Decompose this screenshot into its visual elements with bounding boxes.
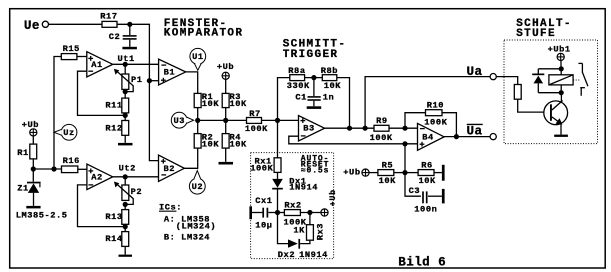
- svg-text:Uz: Uz: [63, 128, 75, 138]
- op-amp A1: [87, 52, 113, 77]
- resistor Rx2: [278, 200, 307, 227]
- wire A2 feedback to R13/R14 node: [78, 185, 126, 227]
- svg-text:100n: 100n: [414, 204, 437, 214]
- node junction R15 line: [51, 166, 56, 171]
- power +Ub (Rx2, vertical label): [321, 189, 338, 216]
- wire +Ub1 to relay top node: [560, 61, 562, 69]
- svg-text:LM385-2.5: LM385-2.5: [16, 211, 68, 221]
- svg-text:Ut2: Ut2: [119, 164, 136, 174]
- wire relay bottom node: [538, 92, 561, 94]
- capacitor C1: [295, 78, 334, 103]
- ground (C1): [307, 101, 322, 109]
- svg-text:+Ub: +Ub: [22, 120, 39, 130]
- ground (R12): [118, 135, 133, 145]
- title SCHALT-STUFE: [516, 18, 572, 40]
- svg-text:R17: R17: [100, 12, 117, 22]
- svg-text:R15: R15: [63, 44, 80, 54]
- wire R5 to node: [394, 172, 405, 174]
- resistor R16: [62, 156, 80, 173]
- resistor R7: [245, 109, 268, 134]
- node Rx2/Rx3: [300, 210, 321, 215]
- node below R11: [123, 113, 128, 118]
- wire Dx1 to Cx1 node: [277, 189, 279, 212]
- resistor R14: [105, 227, 128, 247]
- diode Dx2: [278, 213, 328, 261]
- svg-text:100K: 100K: [370, 133, 393, 143]
- wire Ue to R17: [49, 23, 103, 25]
- resistor R1 10K: [194, 92, 219, 109]
- ground (R6, side bar): [434, 165, 445, 181]
- wire comparator output bus to B3: [198, 119, 247, 121]
- svg-text:STUFE: STUFE: [516, 28, 556, 40]
- svg-text:B3: B3: [303, 124, 315, 134]
- wire B1 output to R1: [186, 72, 198, 94]
- svg-text:Ua: Ua: [467, 125, 483, 139]
- resistor R3 10K: [222, 79, 247, 109]
- svg-text:330K: 330K: [287, 81, 310, 91]
- svg-text:10K: 10K: [202, 139, 220, 149]
- wire A2 output Ut2 to B2 - input: [113, 176, 159, 178]
- wire Ua riser and output line: [365, 77, 490, 129]
- node bus/R1/R2: [195, 118, 200, 123]
- svg-text:KOMPARATOR: KOMPARATOR: [164, 28, 244, 40]
- node below P2: [123, 202, 128, 207]
- resistor R15: [61, 44, 80, 60]
- ground (R4): [219, 148, 234, 164]
- svg-text:100K: 100K: [250, 164, 273, 174]
- label AUTO-RESET 0.5s: [301, 154, 330, 175]
- svg-text:U2: U2: [192, 182, 204, 192]
- label ICs list: [159, 203, 216, 243]
- svg-text:Ut1: Ut1: [118, 54, 135, 64]
- resistor R12: [105, 115, 128, 135]
- svg-text:Rx3: Rx3: [315, 223, 325, 240]
- svg-text:Z1: Z1: [17, 184, 29, 194]
- wire R8b to B3 output: [337, 78, 350, 129]
- op-amp A2: [87, 164, 113, 190]
- svg-text:Dx2: Dx2: [278, 250, 295, 260]
- svg-text:(LM324): (LM324): [176, 222, 216, 232]
- ground (R14): [119, 246, 133, 256]
- title SCHMITT-TRIGGER: [283, 39, 347, 62]
- resistor R8a: [287, 66, 310, 91]
- svg-text:C1: C1: [295, 93, 307, 103]
- svg-text:P2: P2: [131, 187, 143, 197]
- node relay top: [538, 66, 564, 71]
- node junction Ue line / B1 + input: [147, 78, 159, 83]
- svg-text:10µ: 10µ: [255, 220, 272, 230]
- svg-text:10K: 10K: [379, 176, 397, 186]
- wire relay contact link (dotted): [573, 79, 581, 81]
- svg-text:B4: B4: [422, 132, 434, 142]
- svg-text:10K: 10K: [419, 176, 437, 186]
- svg-text:10K: 10K: [230, 99, 248, 109]
- node Ue input terminal: [24, 19, 49, 33]
- wire R15 to A1 + input: [77, 56, 87, 58]
- svg-text:Rx2: Rx2: [284, 200, 301, 210]
- svg-text:+Ub: +Ub: [329, 189, 338, 206]
- svg-text:R1: R1: [17, 148, 29, 158]
- wire Uz reference line to R15: [54, 57, 61, 170]
- svg-text:R16: R16: [63, 156, 80, 166]
- node R8a/R8b/C1: [311, 75, 316, 80]
- ground (C2): [122, 40, 136, 50]
- svg-text:C2: C2: [109, 32, 121, 42]
- svg-text:≈0.5s: ≈0.5s: [301, 166, 330, 175]
- wire R10 right leg to B4 output: [442, 113, 456, 137]
- wire R10 left leg: [405, 113, 426, 129]
- wire R16 to A2 + input: [78, 168, 87, 170]
- resistor R6: [405, 160, 436, 186]
- svg-text:R7: R7: [249, 109, 261, 119]
- svg-text:1K: 1K: [293, 226, 305, 236]
- svg-text:1n: 1n: [323, 93, 335, 103]
- wire B4+ node to R5/R6: [404, 144, 406, 173]
- svg-text:100K: 100K: [424, 117, 447, 127]
- comparator B2: [159, 155, 185, 181]
- svg-text:1N914: 1N914: [289, 183, 318, 193]
- svg-text:+Ub: +Ub: [343, 167, 360, 177]
- resistor (base, unlabeled): [514, 85, 521, 100]
- power +Ub (above R3): [217, 62, 234, 79]
- resistor R2 10K: [194, 120, 219, 149]
- node Uz bubble: [54, 124, 77, 140]
- wire R8a to R8b: [305, 77, 323, 79]
- wire R2 to B2 output: [184, 148, 197, 168]
- svg-text:10K: 10K: [230, 139, 248, 149]
- node B3out/R8b: [347, 126, 352, 131]
- resistor R10: [424, 100, 447, 127]
- svg-text:Cx1: Cx1: [255, 196, 272, 206]
- svg-text:U3: U3: [174, 116, 186, 126]
- wire Ua terminal into base resistor: [496, 77, 517, 85]
- svg-text:R9: R9: [376, 116, 388, 126]
- resistor R5: [369, 160, 396, 186]
- svg-text:B1: B1: [164, 68, 176, 78]
- capacitor C2: [109, 24, 137, 42]
- title FENSTER-KOMPARATOR: [164, 18, 244, 40]
- svg-text:R14: R14: [105, 234, 122, 244]
- wire hysteresis left leg: [278, 78, 290, 121]
- node R9/R10/B4: [402, 126, 407, 131]
- node junction R1/Z1: [31, 166, 36, 171]
- resistor Rx1: [250, 120, 281, 173]
- op-amp B3: [299, 116, 325, 142]
- relay coil K1: [549, 69, 573, 93]
- diode Dx1: [272, 172, 318, 192]
- node U1 bubble: [190, 48, 206, 70]
- ground (emitter): [554, 135, 568, 137]
- svg-text:B: LM324: B: LM324: [164, 232, 210, 242]
- svg-text:+Ub: +Ub: [217, 62, 234, 72]
- wire R3 to bus: [225, 108, 227, 121]
- power +Ub (left): [22, 120, 39, 136]
- power +Ub (R5): [343, 167, 369, 177]
- auto-reset dotted box: [251, 153, 334, 259]
- ground (Z1): [26, 206, 40, 209]
- relay switch contact: [578, 63, 588, 95]
- resistor Rx3: [293, 213, 325, 241]
- resistor R9: [370, 116, 393, 143]
- wire R1 to reference bus: [32, 159, 34, 169]
- wire emitter to ground: [560, 124, 562, 135]
- node Ut1: [118, 54, 135, 67]
- schalt-stufe dotted box: [504, 40, 598, 144]
- node junction R17/C2: [127, 22, 132, 27]
- svg-text:R8a: R8a: [288, 66, 305, 76]
- potentiometer P1: [114, 64, 143, 91]
- capacitor Cx1: [255, 196, 277, 230]
- op-amp B4: [418, 123, 445, 150]
- node R5/R6/C3: [402, 170, 407, 175]
- node B3-/B4+/R5 junction: [402, 141, 407, 146]
- resistor R17: [100, 12, 117, 28]
- resistor R4 10K: [222, 120, 247, 149]
- svg-text:10K: 10K: [324, 81, 342, 91]
- node relay bottom / collector: [559, 90, 564, 95]
- svg-text:R8b: R8b: [321, 66, 338, 76]
- ground (C3, side bar): [428, 189, 445, 204]
- svg-text:R6: R6: [421, 160, 433, 170]
- wire B3 - input feedback leg: [289, 136, 418, 144]
- potentiometer P2: [114, 177, 142, 205]
- svg-text:R5: R5: [382, 160, 394, 170]
- wire R1 to bus: [197, 108, 199, 121]
- ground (Cx1, side bar): [249, 206, 262, 219]
- resistor R13: [105, 204, 128, 224]
- zener Z1: [17, 169, 40, 206]
- svg-text:1N914: 1N914: [299, 250, 328, 260]
- wire reference bus to R16: [33, 168, 62, 170]
- comparator B1: [159, 59, 186, 85]
- diode (relay freewheel): [532, 69, 544, 93]
- node Cx1/Rx2/Dx2: [275, 210, 280, 215]
- resistor R8b: [321, 66, 342, 91]
- transistor Q1: [544, 93, 568, 125]
- wire R9 to B4 - input: [389, 127, 418, 129]
- wire B3 output to R9: [325, 127, 374, 129]
- node below P1: [123, 89, 128, 94]
- svg-text:B2: B2: [164, 164, 176, 174]
- node B3out/Ua riser: [363, 126, 368, 131]
- svg-text:Ua: Ua: [467, 65, 483, 79]
- node Ua output terminal: [467, 65, 497, 80]
- node bus/R7/B3/Rx1 junction: [275, 118, 280, 123]
- svg-text:R11: R11: [105, 100, 122, 110]
- power +Ub1: [548, 45, 571, 61]
- node Ua-bar output terminal: [467, 124, 497, 139]
- resistor R11: [105, 92, 128, 113]
- svg-text:C3: C3: [409, 186, 421, 196]
- node B4out/R10: [454, 134, 459, 139]
- node below R13: [123, 224, 128, 229]
- svg-text:P1: P1: [131, 75, 143, 85]
- svg-text:100K: 100K: [245, 124, 268, 134]
- node bus/R3/R4: [223, 118, 228, 123]
- svg-text:R10: R10: [427, 100, 444, 110]
- wire A1 feedback to R11/R12 node: [78, 71, 126, 115]
- svg-text:A2: A2: [91, 172, 103, 182]
- node Ut2: [119, 164, 136, 180]
- svg-text:U1: U1: [192, 52, 204, 62]
- svg-text:Ue: Ue: [24, 19, 40, 33]
- svg-text:Bild 6: Bild 6: [398, 255, 446, 269]
- svg-text:R12: R12: [105, 123, 122, 133]
- capacitor C3: [405, 173, 437, 215]
- wire base resistor to transistor base: [518, 99, 550, 112]
- wire ICs underline: [159, 210, 176, 212]
- wire R17 to corner, vertical Ue line down to B2: [117, 24, 159, 160]
- resistor R1 (reference): [17, 136, 36, 159]
- svg-text:A1: A1: [91, 60, 103, 70]
- svg-text:TRIGGER: TRIGGER: [283, 49, 339, 61]
- svg-text:R13: R13: [105, 212, 122, 222]
- node U2 bubble: [189, 171, 205, 195]
- svg-text:10K: 10K: [202, 99, 220, 109]
- wire A1 output Ut1 to B1 - input: [113, 63, 159, 65]
- wire B4 output to Ua-bar: [444, 136, 490, 138]
- node U3 bubble: [171, 112, 193, 128]
